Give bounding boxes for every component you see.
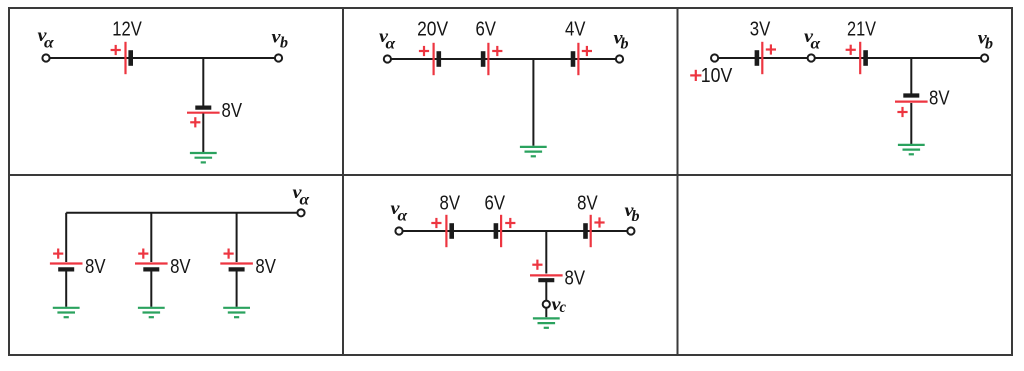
terminal node va cell5 <box>395 227 402 234</box>
wire cell5 vc to ground <box>545 308 547 317</box>
wire cell2 main horizontal va-vb <box>387 58 619 60</box>
battery source 8V cell5 left <box>446 215 451 247</box>
battery source 12V cell1 <box>126 42 131 74</box>
ground cell4 branch 2 <box>138 308 165 317</box>
ground cell5 <box>533 318 560 327</box>
ground cell3 <box>898 145 925 154</box>
svg-text:12V: 12V <box>112 19 142 41</box>
battery source 20V cell2 <box>434 43 439 75</box>
battery source 8V cell5 bottom <box>530 275 563 280</box>
terminal node vb cell1 <box>275 54 282 61</box>
battery source 6V cell5 <box>496 215 501 247</box>
plus polarity 8V source right <box>594 217 604 227</box>
wire cell4 branch 2 lower <box>150 272 152 307</box>
svg-text:6V: 6V <box>485 193 506 215</box>
wire cell3 junction down to 8V source <box>910 58 912 94</box>
svg-text:8V: 8V <box>170 256 191 278</box>
wire cell1 8V source to ground <box>202 114 204 153</box>
svg-text:4V: 4V <box>565 19 586 41</box>
svg-text:b: b <box>280 35 288 52</box>
plus sign of +10V annotation <box>690 70 701 81</box>
wire cell4 branch 3 lower <box>236 272 238 307</box>
label vb cell5 <box>625 200 640 225</box>
battery source 6V cell2 <box>483 43 488 75</box>
plus polarity 8V source cell1 <box>190 117 200 127</box>
svg-text:6V: 6V <box>475 19 496 41</box>
svg-text:b: b <box>985 36 993 53</box>
battery source 8V cell5 right <box>586 215 591 247</box>
svg-text:3V: 3V <box>750 19 771 41</box>
battery source 8V cell3 <box>895 96 928 102</box>
svg-text:8V: 8V <box>255 256 276 278</box>
wire cell3 8V source to ground <box>910 103 912 144</box>
battery source 3V cell3 <box>757 42 762 74</box>
plus polarity 8V source branch 1 <box>53 249 63 259</box>
svg-text:b: b <box>621 36 629 53</box>
terminal node va cell4 <box>297 209 304 216</box>
svg-text:8V: 8V <box>565 268 586 290</box>
wire cell4 branch 1 upper <box>65 213 67 262</box>
svg-text:α: α <box>386 36 397 53</box>
wire cell4 branch 3 upper <box>236 213 238 262</box>
wire cell1 junction down to 8V source <box>202 58 204 106</box>
terminal node vb cell3 <box>981 54 988 61</box>
terminal node va cell1 <box>42 54 49 61</box>
wire cell5 junction down to 8V source <box>545 231 547 274</box>
wire cell4 top bus to va <box>66 212 301 214</box>
battery source 8V cell4 branch 3 <box>220 264 253 270</box>
svg-text:8V: 8V <box>929 88 950 110</box>
svg-text:20V: 20V <box>417 19 449 41</box>
terminal node vb cell2 <box>616 55 623 62</box>
wire cell2 junction to ground <box>532 59 534 146</box>
svg-text:8V: 8V <box>577 193 598 215</box>
terminal node vb cell5 <box>627 227 634 234</box>
terminal node va cell2 <box>384 55 391 62</box>
svg-text:α: α <box>300 192 311 209</box>
svg-text:8V: 8V <box>85 256 106 278</box>
label vb cell2 <box>614 28 629 53</box>
plus polarity 20V source <box>419 46 429 56</box>
battery source 21V cell3 <box>860 42 865 74</box>
plus polarity 4V source <box>582 46 592 56</box>
plus polarity 8V source branch 3 <box>224 249 234 259</box>
ground cell4 branch 3 <box>223 308 250 317</box>
plus polarity 3V source <box>766 44 776 54</box>
label vb cell1 <box>272 27 289 52</box>
plus polarity 8V source bottom <box>532 260 542 270</box>
plus polarity 8V source left <box>431 218 441 228</box>
label vc cell5 <box>552 294 567 316</box>
wire cell3 main horizontal <box>715 57 985 59</box>
label va cell2 <box>379 26 396 53</box>
terminal node vc cell5 <box>543 301 550 308</box>
label va cell3 <box>804 26 821 53</box>
svg-text:10V: 10V <box>701 65 733 87</box>
terminal node va cell3 <box>808 54 815 61</box>
ground cell2 <box>520 147 547 156</box>
battery source 8V cell1 <box>187 108 220 113</box>
label va cell5 <box>391 198 409 225</box>
label va cell1 <box>38 25 55 52</box>
svg-text:b: b <box>632 208 640 225</box>
terminal input node cell3 <box>711 54 718 61</box>
wire cell4 branch 2 upper <box>150 213 152 262</box>
svg-text:8V: 8V <box>222 100 243 122</box>
svg-text:21V: 21V <box>847 19 877 41</box>
plus polarity 8V source branch 2 <box>138 249 148 259</box>
svg-text:α: α <box>398 208 409 225</box>
svg-text:8V: 8V <box>440 193 461 215</box>
plus polarity 21V source <box>846 45 856 55</box>
ground cell1 <box>190 153 217 162</box>
wire cell5 main horizontal va-vb <box>399 230 631 232</box>
ground cell4 branch 1 <box>53 308 80 317</box>
plus polarity 12V source <box>111 45 121 55</box>
label vb cell3 <box>978 28 993 53</box>
plus polarity 6V source cell5 <box>505 218 515 228</box>
label va cell4 <box>293 182 311 209</box>
plus polarity 6V source <box>492 46 502 56</box>
wire cell5 8V source to vc <box>545 282 547 301</box>
battery source 8V cell4 branch 2 <box>135 264 168 270</box>
battery source 8V cell4 branch 1 <box>50 264 83 270</box>
wire cell1 main horizontal va-vb <box>46 57 279 59</box>
wire cell4 branch 1 lower <box>65 272 67 307</box>
battery source 4V cell2 <box>573 43 578 75</box>
svg-text:α: α <box>44 35 55 52</box>
svg-text:c: c <box>560 299 567 316</box>
svg-text:α: α <box>811 36 822 53</box>
plus polarity 8V source cell3 <box>897 107 907 117</box>
